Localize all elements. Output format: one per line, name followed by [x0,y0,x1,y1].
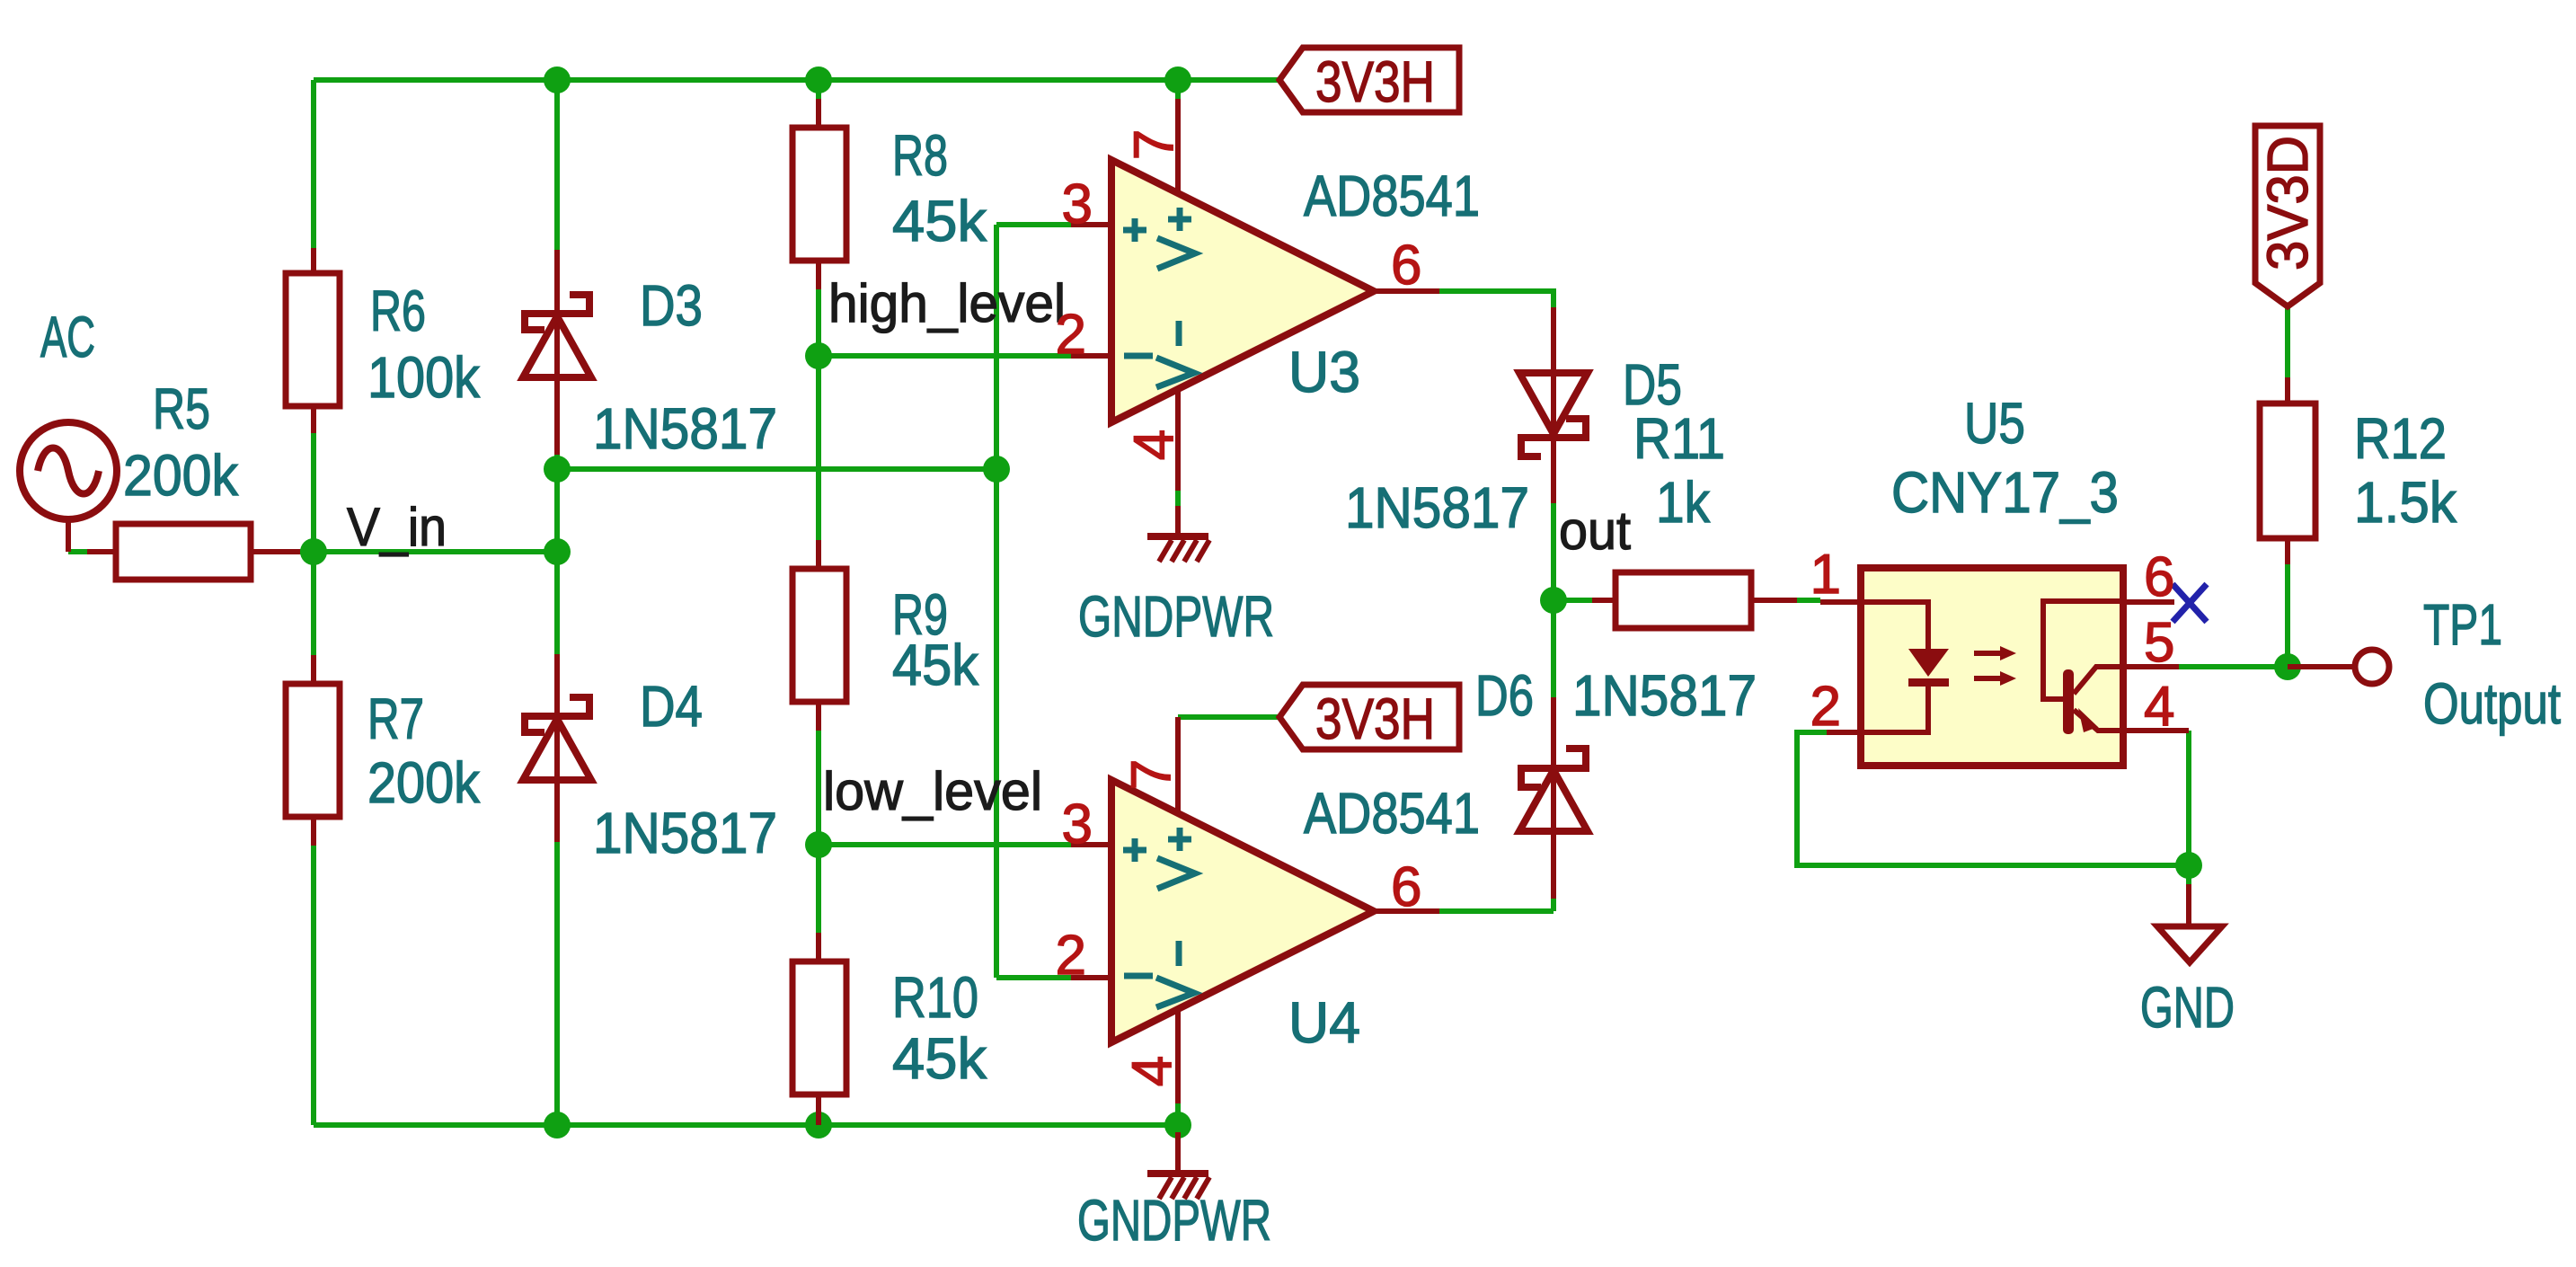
wire D5 to out node [1551,503,1556,600]
wire R7 to bottom rail [311,846,316,1125]
wire node to R9 [816,356,821,540]
diode D3 1N5817 schottky [523,250,591,455]
wire top rail to D3 [554,80,560,250]
svg-text:7: 7 [1120,759,1182,790]
diode D5 1N5817 schottky [1519,307,1588,503]
svg-text:R6: R6 [370,279,426,343]
node V_in at R5 [300,538,327,565]
ground GNDPWR at U4 pin4 [1147,1132,1209,1199]
svg-text:AC: AC [40,305,95,369]
svg-text:45k: 45k [892,1026,987,1091]
op-amp U3 AD8541 [1071,99,1439,533]
svg-text:D3: D3 [640,273,703,338]
svg-text:45k: 45k [892,189,987,253]
svg-text:200k: 200k [367,750,481,815]
ground GNDPWR at U3 pin4 [1147,536,1209,562]
wire V_in to D4 [554,552,560,654]
power flag 3V3H top [1279,48,1459,114]
ground GND at U5 [2157,884,2222,962]
svg-text:6: 6 [2144,546,2174,608]
node low_level [805,831,832,858]
svg-text:4: 4 [1121,1056,1183,1086]
svg-text:1k: 1k [1656,470,1711,535]
node bottom rail U4 pin4 [1164,1112,1191,1139]
svg-text:R5: R5 [153,377,210,441]
wire R12 to TP1 node [2285,564,2290,667]
wire R8 bottom to node [816,289,821,356]
node bottom rail R10 [805,1112,832,1139]
wire U4 pin7 to 3V3H [1178,714,1279,720]
resistor R8 [792,99,846,289]
svg-text:R7: R7 [367,687,424,751]
node bottom rail D4 [544,1112,571,1139]
resistor R5 [116,524,300,580]
wire U5 pin2 routing [1797,732,2189,865]
svg-text:V_in: V_in [347,497,447,557]
node high_level [805,342,832,369]
voltage source AC [20,422,117,552]
svg-text:5: 5 [2144,612,2174,674]
wire U4 pin3 [819,842,1071,847]
svg-text:R11: R11 [1633,406,1725,471]
svg-text:2: 2 [1810,676,1841,738]
svg-text:low_level: low_level [823,761,1042,821]
svg-text:U3: U3 [1288,340,1360,404]
wire U4 pin4 to rail [1175,1103,1181,1132]
svg-text:2: 2 [1056,925,1086,987]
svg-text:R8: R8 [892,123,948,188]
svg-text:1: 1 [1810,544,1841,606]
wire U3 pin4 green dash [1175,491,1181,506]
test point TP1 [2288,650,2389,684]
svg-text:6: 6 [1391,856,1421,918]
wire mid horizontal node to U3 [557,466,996,472]
diode D4 1N5817 schottky [523,654,591,842]
svg-text:3V3H: 3V3H [1315,49,1435,114]
wire top rail [314,77,1279,83]
svg-text:out: out [1559,501,1631,561]
wire U3 pin3 [996,222,1071,227]
node out [1540,587,1567,614]
svg-text:7: 7 [1123,129,1185,160]
resistor R11 [1592,572,1797,628]
svg-text:U4: U4 [1288,990,1360,1055]
svg-text:1.5k: 1.5k [2354,470,2457,535]
wire R11 to U5 pin1 [1797,598,1820,603]
wire U3 pin2 from high_level [819,353,1071,359]
resistor R10 [792,933,846,1125]
svg-text:TP1: TP1 [2423,592,2502,657]
power flag 3V3H at U4 pin7 [1279,685,1459,751]
svg-text:AD8541: AD8541 [1304,164,1480,228]
diode D6 1N5817 schottky [1519,697,1588,899]
wire left vertical upper [311,80,316,248]
svg-text:6: 6 [1391,235,1421,297]
optocoupler U5 CNY17_3 [1820,568,2189,766]
svg-text:4: 4 [1123,430,1185,460]
wire out node to R11 [1554,598,1592,603]
wire R9 to low_level node [816,731,821,845]
node mid wire to vertical [983,456,1010,483]
wire vertical V_in net to opamp inputs [994,225,999,978]
svg-text:1N5817: 1N5817 [1345,475,1529,540]
wire U3 pin7 green stub [1175,80,1181,99]
wire U4 output [1439,908,1554,914]
wire U3 output [1439,291,1554,307]
svg-text:Output: Output [2423,671,2561,736]
wire U5 pin5 to TP1 node [2179,664,2288,669]
wire R6 to V_in [311,433,316,552]
wire V_in to R7 [311,552,316,655]
svg-text:45k: 45k [892,633,979,697]
svg-text:1N5817: 1N5817 [593,396,777,461]
svg-text:R10: R10 [892,965,978,1030]
svg-text:D6: D6 [1475,663,1534,728]
node V_in at D3 [544,538,571,565]
node top rail U3 pin7 [1164,66,1191,93]
wire V_in horizontal [314,549,557,554]
svg-text:3: 3 [1062,173,1093,235]
svg-text:U5: U5 [1964,391,2025,456]
wire 3V3D to R12 [2285,306,2290,377]
svg-text:3V3H: 3V3H [1315,687,1435,751]
wire U5 pin4 down [2186,731,2191,884]
wire low_level node to R10 [816,845,821,933]
svg-text:1N5817: 1N5817 [1572,663,1757,728]
wire D4 to bottom rail [554,842,560,1125]
wire R8 top [816,80,821,99]
svg-text:GND: GND [2140,975,2235,1040]
svg-text:R12: R12 [2354,406,2447,471]
wire bottom rail [314,1122,1178,1128]
svg-text:D4: D4 [640,674,703,739]
svg-text:3: 3 [1062,793,1093,855]
svg-text:1N5817: 1N5817 [593,801,777,865]
wire D3 to V_in [554,455,560,552]
resistor R7 [286,655,340,846]
wire out node to D6 [1551,600,1556,697]
svg-text:4: 4 [2144,676,2174,738]
svg-text:200k: 200k [123,443,239,508]
svg-text:2: 2 [1056,304,1086,366]
node top rail D3 [544,66,571,93]
svg-text:100k: 100k [367,345,481,410]
resistor R12 [2260,377,2315,564]
node D3 bottom mid wire [544,456,571,483]
power flag 3V3D [2255,126,2320,306]
svg-text:GNDPWR: GNDPWR [1077,1188,1271,1253]
svg-text:CNY17_3: CNY17_3 [1891,460,2119,525]
svg-text:GNDPWR: GNDPWR [1078,584,1274,649]
op-amp U4 AD8541 [1071,717,1439,1103]
node U5 emitter GND [2175,852,2202,879]
wire U4 pin2 [996,975,1071,980]
node TP1 [2274,653,2301,680]
svg-text:high_level: high_level [828,273,1066,333]
wire D6 to U4 output [1551,899,1556,911]
wire AC to R5 [68,549,87,554]
svg-text:3V3D: 3V3D [2255,136,2320,270]
no-connect X on U5 pin6 [2173,584,2207,622]
svg-text:AD8541: AD8541 [1304,781,1480,846]
wire R5 to V_in node [300,549,314,554]
resistor R6 [286,248,340,433]
node top rail R8 [805,66,832,93]
resistor R9 [792,540,846,731]
